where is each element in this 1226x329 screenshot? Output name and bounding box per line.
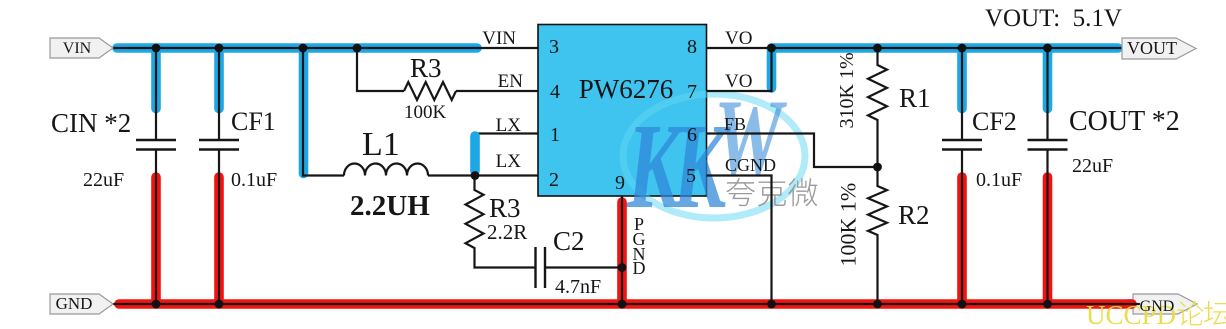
wire PGND highlight — [617, 202, 627, 304]
power tag VIN — [50, 38, 113, 58]
svg-text:7: 7 — [687, 81, 697, 103]
svg-text:100K: 100K — [404, 102, 447, 123]
svg-text:R3: R3 — [410, 53, 442, 83]
svg-text:C2: C2 — [553, 226, 585, 256]
svg-text:COUT *2: COUT *2 — [1069, 106, 1180, 137]
resistor R2 — [868, 167, 887, 304]
wire VOUT rail highlight — [772, 43, 1119, 53]
wire GND rail — [113, 303, 1140, 305]
svg-text:22uF: 22uF — [83, 169, 124, 191]
wire GND rail end over tag — [1119, 299, 1139, 309]
watermark quark text — [726, 178, 817, 206]
wire CF1 stub highlight — [214, 48, 224, 109]
svg-text:FB: FB — [724, 114, 746, 134]
svg-text:R1: R1 — [899, 83, 931, 113]
svg-text:8: 8 — [687, 36, 697, 58]
wire COUT gnd highlight — [1043, 177, 1053, 304]
svg-text:CF1: CF1 — [231, 107, 276, 136]
svg-text:1: 1 — [550, 124, 560, 146]
wire CIN stub highlight — [151, 48, 161, 109]
svg-text:100K 1%: 100K 1% — [836, 183, 861, 267]
black wires — [113, 48, 1140, 304]
svg-text:L1: L1 — [362, 126, 400, 163]
svg-text:W: W — [714, 77, 787, 200]
resistor R3 100K zigzag — [404, 82, 456, 100]
svg-text:VO: VO — [725, 71, 752, 92]
wire CIN gnd highlight — [151, 177, 161, 304]
svg-text:PW6276: PW6276 — [579, 74, 674, 104]
wire LX1 to IC — [475, 132, 538, 134]
blue highlight wires — [117, 48, 1118, 174]
watermark UCCPD — [1086, 300, 1226, 329]
wire CF2 vertical — [961, 48, 963, 304]
wire VO7 elbow — [707, 48, 772, 91]
svg-text:R2: R2 — [898, 200, 930, 230]
wire CIN vertical — [155, 48, 157, 304]
power tag GND left — [50, 294, 113, 314]
wire CF1 vertical — [218, 48, 220, 304]
power tag VOUT — [1122, 38, 1196, 59]
svg-text:4: 4 — [550, 81, 560, 103]
inductor L1 — [344, 164, 428, 176]
svg-text:CIN *2: CIN *2 — [51, 108, 131, 138]
red highlight wires — [119, 177, 1132, 304]
capacitor CF2 plates — [942, 140, 982, 150]
svg-text:VOUT: VOUT — [1127, 38, 1177, 58]
capacitor CF1 plates — [199, 140, 239, 150]
wire VIN rail — [113, 47, 538, 49]
wire EN to IC — [456, 90, 538, 92]
capacitor COUT plates — [1028, 140, 1068, 150]
wire FB path — [707, 134, 878, 168]
svg-text:VIN: VIN — [482, 28, 516, 49]
svg-text:4.7nF: 4.7nF — [555, 276, 601, 298]
wire C2 to PGND — [545, 266, 622, 268]
svg-text:R3: R3 — [489, 193, 521, 223]
wire VO8 — [707, 47, 772, 49]
wire CF2 stub highlight — [957, 48, 967, 109]
svg-text:VIN: VIN — [63, 40, 92, 57]
wire VIN rail highlight — [117, 43, 477, 53]
svg-text:0.1uF: 0.1uF — [976, 169, 1022, 191]
svg-text:9: 9 — [615, 172, 625, 194]
svg-text:CF2: CF2 — [972, 107, 1017, 136]
svg-text:GND: GND — [1140, 298, 1175, 315]
svg-text:VOUT: 5.1V: VOUT: 5.1V — [985, 5, 1122, 32]
wire LX vertical — [474, 134, 476, 176]
svg-text:VO: VO — [725, 28, 752, 49]
resistor R3 2.2R — [466, 176, 536, 268]
svg-text:3: 3 — [549, 36, 559, 58]
U1 pin numbers and name — [549, 36, 697, 194]
svg-text:EN: EN — [498, 71, 524, 92]
wire VO elbow highlight — [767, 48, 777, 88]
wire L1 to LX junction — [428, 174, 538, 176]
svg-text:6: 6 — [687, 124, 697, 146]
wire EN drop — [357, 48, 404, 91]
wire CGND path — [707, 176, 772, 305]
wire VOUT rail — [772, 47, 1123, 49]
wire COUT stub highlight — [1043, 48, 1053, 109]
capacitor CIN plates — [136, 140, 176, 150]
wire PGND — [621, 196, 623, 304]
svg-text:CGND: CGND — [725, 155, 776, 175]
svg-text:22uF: 22uF — [1072, 155, 1113, 177]
wire GND rail highlight — [119, 299, 1132, 309]
watermark KKW ring — [623, 94, 805, 218]
svg-text:GND: GND — [56, 294, 93, 313]
svg-text:5: 5 — [686, 165, 696, 187]
wire COUT vertical — [1046, 48, 1048, 304]
capacitor C2 plates — [536, 247, 546, 288]
svg-text:LX: LX — [496, 151, 522, 172]
svg-text:2.2R: 2.2R — [487, 220, 527, 244]
wire L1 drop highlight — [299, 49, 309, 174]
resistor R1 — [868, 48, 887, 167]
svg-text:D: D — [633, 258, 646, 278]
svg-text:2: 2 — [549, 169, 559, 191]
power tag GND right — [1133, 294, 1197, 314]
IC U1 PW6276 body — [538, 25, 707, 197]
wire CF2 gnd highlight — [957, 177, 967, 304]
svg-text:LX: LX — [496, 115, 522, 136]
wire LX elbow highlight — [470, 136, 480, 171]
svg-text:2.2UH: 2.2UH — [350, 190, 430, 222]
pin name PGND stacked — [633, 214, 646, 278]
wire CF1 gnd highlight — [214, 177, 224, 304]
wire L1 drop — [303, 48, 344, 176]
svg-text:0.1uF: 0.1uF — [231, 169, 277, 191]
svg-text:310K 1%: 310K 1% — [836, 52, 858, 128]
